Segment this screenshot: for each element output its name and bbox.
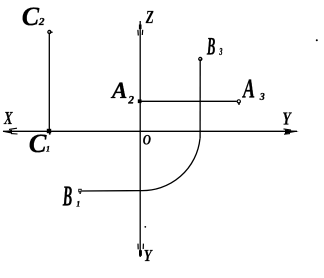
svg-text:1: 1 <box>46 145 50 154</box>
arrowhead Z (top) <box>138 25 143 36</box>
svg-text:3: 3 <box>219 47 223 58</box>
svg-text:B: B <box>62 182 72 213</box>
arrowhead X (left) <box>3 128 18 134</box>
svg-text:2: 2 <box>127 94 134 106</box>
projection line B1 horizontal <box>82 190 140 192</box>
point C1 (on axis) <box>47 129 51 135</box>
svg-text:A: A <box>242 73 255 104</box>
point C2 <box>47 30 52 34</box>
svg-text:O: O <box>143 132 151 148</box>
point B3 <box>198 57 202 61</box>
svg-text:3: 3 <box>259 92 265 103</box>
svg-text:Z: Z <box>145 7 154 27</box>
projection transfer arc B1-B3 <box>140 138 200 190</box>
svg-text:X: X <box>3 108 13 128</box>
svg-text:1: 1 <box>76 200 80 209</box>
svg-text:2: 2 <box>38 16 45 28</box>
svg-text:A: A <box>110 78 127 103</box>
axis X-Y horizontal line <box>3 130 297 132</box>
svg-text:C: C <box>22 2 40 31</box>
projection line A2-A3 <box>140 100 237 102</box>
point A3 (open) <box>237 99 241 105</box>
svg-text:B: B <box>206 34 215 61</box>
point B1 (open) <box>78 189 81 194</box>
svg-text:Y: Y <box>144 246 153 265</box>
axis Z (up) / Y (down) vertical line <box>139 21 141 257</box>
stray speck near bottom arrow <box>144 226 146 228</box>
projection line B3 vertical <box>199 61 201 139</box>
point A2 (on Z axis) <box>138 99 142 103</box>
projection line C2-C1 <box>48 32 50 131</box>
svg-text:C: C <box>29 128 47 158</box>
arrowhead Y (bottom) <box>138 244 143 256</box>
arrowhead Y (right) <box>284 129 299 134</box>
stray speck top right <box>316 39 318 41</box>
